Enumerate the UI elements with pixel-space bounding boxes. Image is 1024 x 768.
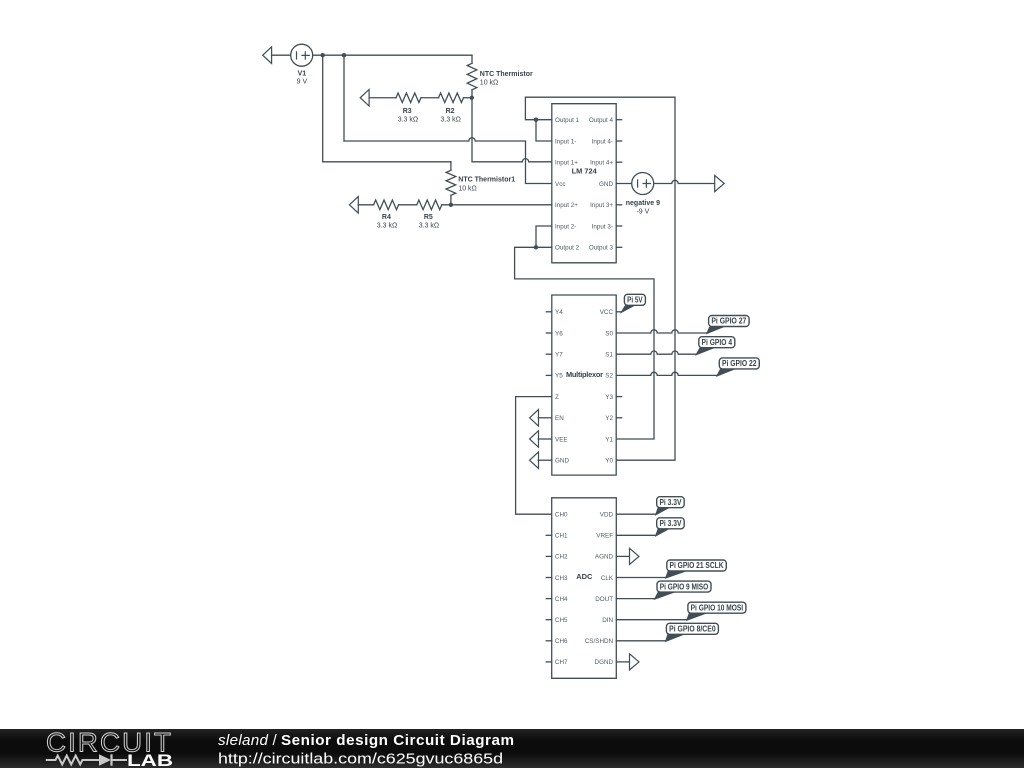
svg-text:VREF: VREF: [596, 533, 613, 540]
resistor R5 3.3 k: [417, 200, 442, 230]
op-amp U1 LM 724 body: [552, 104, 616, 263]
svg-text:Input 4+: Input 4+: [590, 160, 613, 167]
CircuitLab logo resistor-diode symbol: [46, 754, 127, 765]
wire AGND to arrow: [616, 555, 629, 557]
svg-text:S0: S0: [605, 330, 613, 337]
wire R5 junction to op-amp Input 2+: [442, 204, 552, 206]
wire R2 to thermistor junction: [464, 97, 473, 99]
svg-text:Input 1-: Input 1-: [555, 138, 576, 145]
svg-text:Pi GPIO 10 MOSI: Pi GPIO 10 MOSI: [691, 603, 744, 612]
svg-text:VCC: VCC: [600, 309, 614, 316]
svg-text:CS/SHDN: CS/SHDN: [585, 638, 614, 645]
wire op-amp GND to negative supply: [616, 183, 632, 185]
wire VREF to Pi 3.3V flag: [616, 534, 655, 536]
wire negative 9 to output arrow with hop over Y0 column: [654, 180, 715, 183]
flag Pi 3.3V (VDD): [656, 497, 685, 515]
junction node Output 1 feedback: [534, 118, 538, 122]
multiplexer pin labels: [555, 309, 613, 464]
svg-text:Output 3: Output 3: [589, 245, 614, 252]
svg-text:Pi 3.3V: Pi 3.3V: [659, 498, 682, 507]
wire mux Z to ADC CH0: [516, 397, 552, 515]
svg-text:DIN: DIN: [602, 617, 613, 624]
svg-text:Y7: Y7: [555, 352, 563, 359]
wire Output 2 loop under op-amp down to mux Y1: [515, 247, 654, 439]
flag Pi 3.3V (VREF): [656, 518, 685, 536]
svg-text:Y6: Y6: [555, 330, 563, 337]
svg-text:CH6: CH6: [555, 638, 568, 645]
svg-text:sleland / Senior design Circui: sleland / Senior design Circuit Diagram: [218, 732, 514, 749]
ADC pin labels: [555, 512, 614, 667]
ADC U3 body: [552, 498, 617, 679]
svg-text:NTC Thermistor: NTC Thermistor: [480, 71, 533, 78]
svg-text:Output 2: Output 2: [555, 245, 580, 252]
svg-text:3.3 kΩ: 3.3 kΩ: [440, 116, 460, 123]
ADC unconnected left pin stubs: [546, 535, 552, 662]
wire DOUT to flag: [616, 598, 654, 600]
wire thermistor junction down to Input 1+ with hop: [472, 98, 552, 162]
net flag arrow at V1 negative terminal: [263, 47, 291, 64]
svg-text:negative 9: negative 9: [626, 200, 660, 207]
flag Pi GPIO 21 SCLK: [666, 560, 727, 578]
wire vertical from V1 net down to Vcc row: [343, 55, 345, 141]
svg-text:Pi GPIO 22: Pi GPIO 22: [722, 359, 757, 368]
svg-text:LAB: LAB: [127, 752, 173, 768]
svg-text:CH7: CH7: [555, 659, 568, 666]
net flag arrow at AGND: [630, 548, 640, 564]
wire arrow to R3: [369, 97, 396, 99]
svg-text:9 V: 9 V: [297, 78, 308, 85]
svg-text:CH5: CH5: [555, 617, 568, 624]
svg-text:AGND: AGND: [595, 554, 614, 561]
svg-text:CH1: CH1: [555, 533, 568, 540]
svg-text:Pi GPIO 4: Pi GPIO 4: [702, 338, 733, 347]
flag Pi GPIO 4: [696, 337, 735, 355]
junction node Output 2 feedback: [534, 245, 538, 249]
wire Vcc net with hop over thermistor column: [344, 138, 552, 184]
net flag arrow at mux EN: [530, 410, 552, 427]
svg-text:Y1: Y1: [605, 436, 613, 443]
svg-text:Vcc: Vcc: [555, 181, 566, 188]
svg-text:http://circuitlab.com/c625gvuc: http://circuitlab.com/c625gvuc6865d: [218, 751, 503, 768]
svg-text:Input 3-: Input 3-: [592, 223, 613, 230]
svg-text:CH4: CH4: [555, 596, 568, 603]
svg-text:Input 3+: Input 3+: [590, 202, 613, 209]
flag Pi GPIO 22: [717, 358, 759, 376]
svg-text:S2: S2: [605, 373, 613, 380]
svg-text:EN: EN: [555, 415, 564, 422]
wire V1+ to NTC thermistor top: [313, 54, 472, 56]
svg-text:Input 1+: Input 1+: [555, 160, 578, 167]
svg-text:R3: R3: [403, 108, 412, 115]
svg-text:CH2: CH2: [555, 554, 568, 561]
svg-text:CLK: CLK: [601, 575, 614, 582]
wire mux VCC stub: [616, 311, 621, 313]
multiplexer unconnected pin stubs: [546, 312, 621, 418]
svg-text:Z: Z: [555, 394, 559, 401]
svg-text:Y4: Y4: [555, 309, 563, 316]
junction node at x=322.7 on V1 wire: [321, 53, 325, 57]
flag Pi GPIO 9 MISO: [655, 581, 712, 599]
svg-text:CH3: CH3: [555, 575, 568, 582]
wire Output 1 feedback loop to top rail and down to mux Y0: [525, 97, 675, 460]
svg-text:Input 2-: Input 2-: [555, 223, 576, 230]
wire R4 to R5: [399, 204, 417, 206]
wire Output 1 to Input 1-: [536, 120, 552, 141]
svg-text:Y2: Y2: [605, 415, 613, 422]
junction node at x=344 on V1 wire: [342, 53, 346, 57]
net flag arrow at mux GND: [530, 452, 552, 469]
svg-text:Pi GPIO 9 MISO: Pi GPIO 9 MISO: [660, 582, 709, 591]
svg-text:R2: R2: [446, 108, 455, 115]
wire Output 2 to Input 2-: [536, 226, 552, 247]
wire DIN to flag: [616, 619, 686, 621]
svg-text:Pi GPIO 21 SCLK: Pi GPIO 21 SCLK: [670, 561, 724, 570]
svg-text:GND: GND: [599, 181, 613, 188]
svg-text:S1: S1: [605, 352, 613, 359]
svg-text:Input 2+: Input 2+: [555, 202, 578, 209]
footer bar: [0, 729, 1024, 768]
svg-text:Multiplexor: Multiplexor: [566, 370, 603, 379]
svg-text:VDD: VDD: [600, 512, 614, 519]
wire vertical from V1 net down to thermistor1 row: [322, 55, 324, 162]
svg-text:VEE: VEE: [555, 436, 568, 443]
svg-text:CH0: CH0: [555, 512, 568, 519]
wire S1 with hops: [616, 351, 696, 354]
svg-text:Pi GPIO 27: Pi GPIO 27: [711, 317, 746, 326]
wire CLK to flag: [616, 577, 665, 579]
wire VDD to Pi 3.3V flag: [616, 513, 655, 515]
flag Pi GPIO 27: [707, 316, 749, 334]
junction node R5 / NTC Thermistor1: [449, 203, 453, 207]
svg-text:Y0: Y0: [605, 458, 613, 465]
svg-text:GND: GND: [555, 458, 569, 465]
op-amp unconnected right pin stubs: [616, 120, 622, 248]
resistor R2 3.3 k: [439, 93, 464, 123]
flag Pi GPIO 8/CE0: [666, 623, 719, 641]
svg-text:LM 724: LM 724: [572, 167, 598, 176]
svg-text:Output 1: Output 1: [555, 117, 580, 124]
svg-text:R5: R5: [424, 214, 433, 221]
op-amp LM 724 pin labels: [555, 117, 613, 252]
svg-text:3.3 kΩ: 3.3 kΩ: [419, 223, 439, 230]
wire horizontal to NTC Thermistor1 top: [323, 161, 451, 163]
wire DGND to arrow: [616, 661, 629, 663]
wire CS/SHDN to flag: [616, 640, 665, 642]
net flag arrow at mux VEE: [530, 431, 552, 448]
resistor NTC Thermistor1 10 k (vertical): [446, 162, 515, 205]
svg-text:Output 4: Output 4: [589, 117, 614, 124]
svg-text:3.3 kΩ: 3.3 kΩ: [398, 116, 418, 123]
flag Pi GPIO 10 MOSI: [687, 602, 746, 620]
svg-text:10 kΩ: 10 kΩ: [458, 185, 476, 192]
svg-text:3.3 kΩ: 3.3 kΩ: [377, 223, 397, 230]
resistor R3 3.3 k: [396, 93, 421, 123]
svg-text:DOUT: DOUT: [595, 596, 613, 603]
svg-text:R4: R4: [382, 214, 391, 221]
svg-text:10 kΩ: 10 kΩ: [480, 80, 498, 87]
wire R3 to R2: [421, 97, 439, 99]
wire S2 with hops: [616, 372, 717, 375]
svg-text:Pi GPIO 8/CE0: Pi GPIO 8/CE0: [669, 625, 716, 634]
svg-text:V1: V1: [298, 70, 307, 77]
net flag arrow left of R4: [349, 197, 358, 214]
svg-text:Pi 3.3V: Pi 3.3V: [659, 519, 682, 528]
CircuitLab logo CIRCUIT wordmark: [46, 728, 173, 758]
CircuitLab logo LAB wordmark: [127, 752, 173, 768]
svg-text:Y3: Y3: [605, 394, 613, 401]
voltage source V1 9 V: [291, 44, 313, 85]
net flag arrow right of negative 9: [715, 175, 725, 191]
svg-text:NTC Thermistor1: NTC Thermistor1: [458, 177, 515, 184]
resistor R4 3.3 k: [374, 200, 399, 230]
resistor NTC Thermistor 10 k (vertical): [467, 55, 533, 98]
net flag arrow at DGND: [630, 654, 640, 670]
footer title: sleland / Senior design Circuit Diagram: [218, 732, 514, 749]
footer URL: [218, 751, 503, 768]
svg-text:DGND: DGND: [595, 659, 614, 666]
multiplexer U2 body: [552, 295, 616, 475]
voltage source negative 9 (-9 V): [626, 173, 660, 216]
svg-text:ADC: ADC: [576, 572, 593, 581]
flag Pi 5V: [621, 294, 645, 312]
junction node R2 / NTC thermistor: [470, 96, 474, 100]
wire arrow to R4: [358, 204, 373, 206]
svg-text:-9 V: -9 V: [636, 208, 649, 215]
svg-text:Pi 5V: Pi 5V: [627, 296, 643, 305]
wire S0 with hops: [616, 330, 707, 333]
net flag arrow left of R3: [360, 89, 369, 106]
svg-text:Y5: Y5: [555, 373, 563, 380]
svg-text:Input 4-: Input 4-: [592, 138, 613, 145]
